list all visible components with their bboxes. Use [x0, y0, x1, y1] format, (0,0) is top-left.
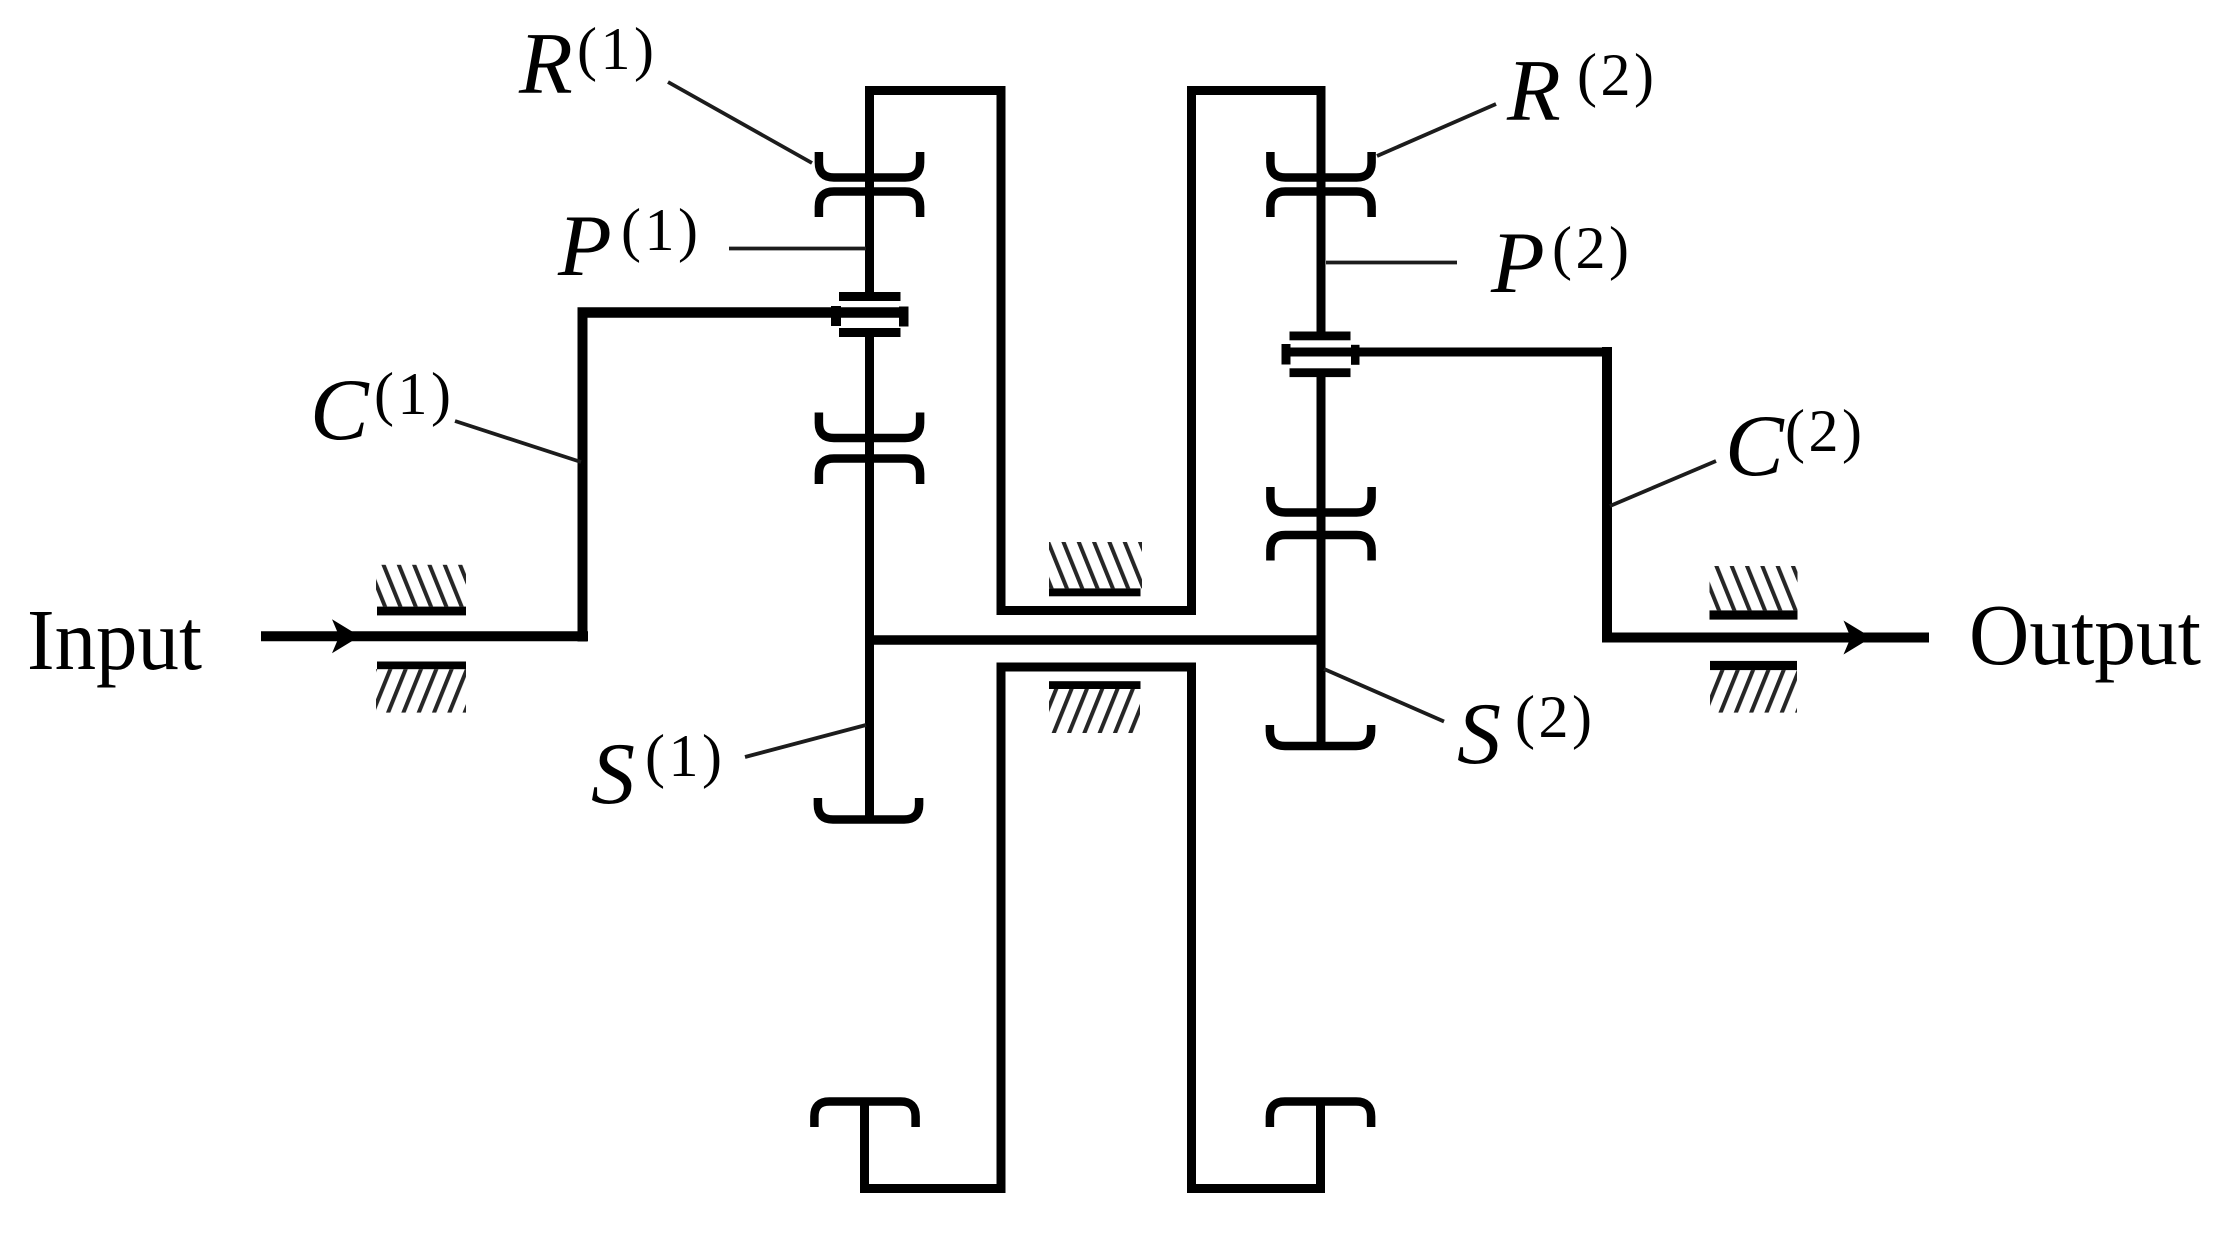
svg-text:(2): (2)	[1552, 215, 1632, 281]
svg-text:(2): (2)	[1515, 684, 1595, 750]
svg-text:Output: Output	[1969, 586, 2201, 683]
svg-text:R: R	[518, 16, 573, 113]
svg-text:P: P	[557, 198, 612, 295]
svg-text:Input: Input	[27, 591, 202, 688]
svg-text:R: R	[1506, 43, 1561, 140]
svg-text:(1): (1)	[621, 197, 701, 263]
svg-text:(2): (2)	[1577, 42, 1657, 108]
svg-text:P: P	[1490, 215, 1545, 312]
svg-text:C: C	[1725, 398, 1785, 495]
svg-text:C: C	[310, 362, 370, 459]
svg-text:(1): (1)	[577, 16, 657, 82]
svg-text:(1): (1)	[645, 723, 725, 789]
svg-text:(1): (1)	[374, 361, 454, 427]
svg-text:(2): (2)	[1785, 398, 1865, 464]
svg-text:S: S	[591, 726, 635, 823]
svg-text:S: S	[1457, 686, 1501, 783]
